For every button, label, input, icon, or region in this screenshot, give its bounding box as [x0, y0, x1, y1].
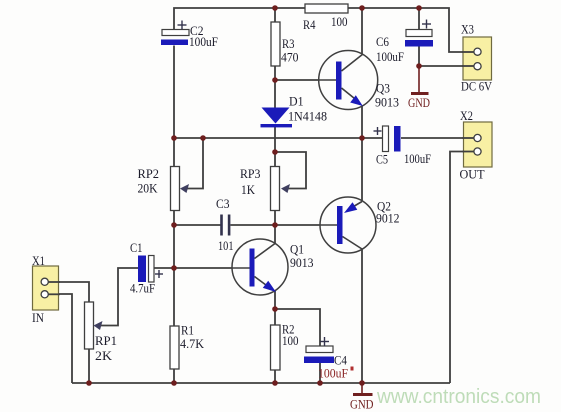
- svg-text:RP2: RP2: [138, 166, 160, 181]
- wire node y80 to D1 anode: [274, 80, 276, 108]
- label C2 value 100uF: [189, 34, 218, 49]
- label IN: [32, 310, 45, 325]
- label D1 value 1N4148: [288, 109, 327, 124]
- label C1: [130, 240, 143, 255]
- transistor Q1 emitter line: [255, 277, 271, 289]
- node R3 bottom / Q3 base / D1: [272, 77, 278, 83]
- node RP2 wiper tap y138: [200, 135, 206, 141]
- label RP1 value 2K: [95, 348, 113, 363]
- label R4 value 100: [331, 14, 348, 29]
- wire top rail to R3 top: [274, 8, 276, 22]
- capacitor C1 plus sign: [155, 270, 163, 278]
- transistor Q2 base bar: [337, 206, 343, 244]
- wire ground rail bottom: [72, 382, 450, 384]
- capacitor C6 positive plate: [406, 30, 432, 37]
- label C6: [376, 34, 389, 49]
- svg-text:IN: IN: [32, 310, 45, 325]
- svg-text:X1: X1: [32, 253, 45, 268]
- capacitor C5 negative plate: [394, 126, 401, 152]
- capacitor C5 positive plate: [383, 126, 389, 152]
- svg-text:OUT: OUT: [460, 167, 485, 182]
- svg-text:100uF: 100uF: [189, 34, 218, 49]
- transistor Q3 collector line: [342, 54, 364, 71]
- wire R2 bottom to ground rail: [274, 370, 276, 383]
- capacitor C5 plus sign: [374, 127, 382, 135]
- svg-text:R4: R4: [303, 17, 316, 32]
- label Q2: [377, 199, 391, 214]
- label OUT: [460, 167, 485, 182]
- transistor Q2 circle: [320, 197, 376, 253]
- ground symbol top bar: [411, 92, 429, 95]
- label Q2 value 9012: [376, 211, 400, 226]
- connector X3 pin 2: [474, 63, 481, 70]
- label RP1: [95, 333, 117, 348]
- capacitor C2 positive plate: [162, 30, 189, 36]
- wire RP3 wiper bracket: [275, 152, 306, 189]
- svg-text:2K: 2K: [95, 348, 113, 363]
- connector X1 body: [33, 266, 59, 310]
- ground symbol bottom stub: [361, 383, 363, 393]
- svg-text:X2: X2: [460, 108, 473, 123]
- wire C1 right plate to x174 node: [154, 267, 174, 269]
- wire Q1 emitter down to R2 top: [274, 291, 276, 325]
- wire C4 bottom to ground rail: [319, 363, 321, 383]
- node C6 / X3 pin2: [416, 63, 422, 69]
- label RP3 value 1K: [241, 182, 256, 197]
- svg-text:9013: 9013: [375, 95, 399, 110]
- label R1: [181, 323, 194, 338]
- svg-text:1N4148: 1N4148: [288, 109, 327, 124]
- label C4: [334, 353, 347, 368]
- node x174 / y138: [171, 135, 177, 141]
- transistor Q3 emitter arrow: [350, 95, 363, 106]
- connector X2 pin 2: [474, 148, 481, 155]
- svg-text:4.7K: 4.7K: [180, 336, 205, 351]
- label RP2 value 20K: [138, 181, 159, 196]
- potentiometer RP2 wiper arrow: [180, 184, 189, 193]
- wire C6 bottom to X3 pin2 node: [418, 47, 420, 67]
- svg-text:DC 6V: DC 6V: [461, 79, 493, 94]
- node top rail / R3: [272, 5, 278, 11]
- label DC 6V: [461, 79, 493, 94]
- label Q1: [290, 242, 304, 257]
- wire RP1 bottom to ground rail: [88, 349, 90, 383]
- label C5: [376, 152, 388, 167]
- node ground rail / R2: [272, 380, 278, 386]
- svg-text:GND: GND: [350, 397, 374, 412]
- wire R3 bottom to node y80: [274, 66, 276, 80]
- capacitor C3 left plate: [220, 215, 223, 236]
- resistor R3 value 470: [271, 22, 280, 66]
- ground symbol top (C6/X3) stub: [418, 66, 420, 92]
- capacitor C2 negative plate: [161, 40, 188, 46]
- label X3: [461, 22, 474, 37]
- wire Q3 collector to top rail: [361, 8, 363, 54]
- connector X2 body: [464, 122, 493, 167]
- node ground rail / C4: [317, 380, 323, 386]
- connector X3 body: [463, 37, 492, 80]
- label GND bottom: [350, 397, 374, 412]
- wire top rail right (R4 right to X3 pin1): [348, 8, 473, 52]
- svg-text:100: 100: [331, 14, 348, 29]
- transistor Q1 base bar: [250, 249, 255, 287]
- node C5 input y138: [359, 135, 365, 141]
- capacitor C4 negative plate: [304, 357, 334, 364]
- label R2: [282, 322, 295, 337]
- svg-text:4.7uF: 4.7uF: [130, 281, 155, 296]
- label C5 value 100uF: [404, 151, 431, 166]
- capacitor C1 positive plate: [149, 256, 155, 283]
- wire X2 pin1 stub inside box: [463, 137, 474, 139]
- resistor R2 value 100: [271, 325, 281, 370]
- potentiometer RP3 body: [271, 167, 280, 211]
- label R4: [303, 17, 316, 32]
- svg-text:RP1: RP1: [95, 333, 117, 348]
- svg-text:100: 100: [282, 333, 299, 348]
- svg-text:C6: C6: [376, 34, 389, 49]
- wire RP3 bottom to C3 node: [274, 210, 276, 225]
- transistor Q2 emitter arrow (PNP, points to base): [344, 202, 357, 213]
- capacitor C4 plus sign: [320, 337, 329, 346]
- label Q3: [376, 81, 390, 96]
- transistor Q2 collector line: [343, 237, 363, 250]
- connector X1 pin 2: [41, 291, 48, 298]
- wire X3 pin1 stub inside box: [462, 51, 474, 53]
- resistor R1 value 4.7K: [170, 326, 179, 369]
- transistor Q3 base bar: [336, 62, 342, 100]
- svg-text:470: 470: [281, 50, 299, 65]
- label RP2: [138, 166, 160, 181]
- wire X1 pin2 stub inside box: [48, 293, 60, 295]
- transistor Q2 base wire inside: [320, 224, 337, 226]
- wire C2 bottom to node y138: [173, 46, 175, 139]
- capacitor C3 right plate: [228, 215, 231, 236]
- label C6 value 100uF: [376, 49, 404, 64]
- wire node y138 to C5 left plate: [362, 137, 382, 139]
- capacitor C6 negative plate: [405, 40, 433, 47]
- svg-text:100uF: 100uF: [404, 151, 431, 166]
- label C3: [216, 196, 230, 211]
- node ground rail / R1: [171, 380, 177, 386]
- ground symbol bottom bar: [353, 393, 373, 396]
- svg-text:9013: 9013: [290, 255, 314, 270]
- svg-text:GND: GND: [408, 95, 430, 110]
- wire RP2 wiper bracket: [183, 138, 203, 189]
- label C2: [190, 23, 204, 38]
- node ground rail / GND: [359, 380, 365, 386]
- svg-text:100uF: 100uF: [376, 49, 404, 64]
- label D1: [289, 94, 304, 109]
- wire Q2 collector down to ground rail: [361, 249, 363, 383]
- potentiometer RP1 body: [85, 302, 94, 349]
- svg-text:C5: C5: [376, 152, 388, 167]
- svg-text:101: 101: [218, 238, 234, 253]
- svg-text:X3: X3: [461, 22, 474, 37]
- node x174 / C3: [171, 222, 177, 228]
- label C4 red asterisk mark: [351, 367, 354, 371]
- svg-text:Q3: Q3: [376, 81, 390, 96]
- svg-text:9012: 9012: [376, 211, 400, 226]
- svg-text:C3: C3: [216, 196, 230, 211]
- wire Q1 emitter branch to C4 top: [275, 309, 320, 346]
- wire Q1 base (x174 node to base bar): [174, 267, 250, 269]
- transistor Q1 emitter arrow: [263, 281, 276, 292]
- diode D1 cathode bar: [261, 124, 293, 127]
- label Q3 value 9013: [375, 95, 399, 110]
- wire RP2 bottom to R1 top (through C3 node and Q1 base node): [173, 210, 175, 326]
- wire C6 top to rail: [418, 8, 420, 30]
- svg-text:C1: C1: [130, 240, 143, 255]
- wire X1 pin1 stub inside box: [48, 281, 60, 283]
- label GND top: [408, 95, 430, 110]
- label R1 value 4.7K: [180, 336, 205, 351]
- potentiometer RP3 wiper arrow: [281, 184, 290, 193]
- wire X1 pin2 down to ground rail: [48, 294, 72, 383]
- node top rail / Q3 collector: [359, 5, 365, 11]
- transistor Q3 circle: [319, 51, 378, 110]
- wire node y138 to RP2 top: [173, 138, 175, 167]
- connector X1 pin 1: [41, 278, 48, 285]
- potentiometer RP2 body: [171, 167, 180, 211]
- node D1 / RP3 top: [272, 149, 278, 155]
- diode D1 1N4148 triangle: [262, 108, 290, 124]
- label X1: [32, 253, 45, 268]
- svg-text:D1: D1: [289, 94, 304, 109]
- wire C3 node left (x174 to C3): [174, 224, 221, 226]
- label R3 value 470: [281, 50, 299, 65]
- wire X1 pin1 to RP1 top: [48, 282, 89, 302]
- transistor Q1 base wire inside: [232, 267, 250, 269]
- wire X2 pin2 down to ground rail: [450, 152, 473, 384]
- label C4 value 100uF: [318, 366, 348, 381]
- wire C3 right to Q2 base: [231, 224, 338, 226]
- capacitor C4 positive plate: [306, 346, 333, 353]
- transistor Q3 base wire inside: [319, 79, 336, 81]
- label Q1 value 9013: [290, 255, 314, 270]
- wire X3 pin2: [419, 65, 473, 67]
- label RP3: [240, 166, 261, 181]
- node C3 / RP3 / Q1 collector: [272, 222, 278, 228]
- watermark www.cntronics.com: [376, 386, 541, 408]
- node C1 / Q1 base: [171, 265, 177, 271]
- capacitor C2 plus sign: [178, 21, 187, 30]
- transistor Q1 circle: [232, 239, 288, 295]
- label R3: [282, 36, 295, 51]
- wire node y138 down to Q2 emitter: [361, 138, 363, 201]
- capacitor C6 plus sign: [422, 20, 431, 29]
- label R2 value 100: [282, 333, 299, 348]
- wire D1 cathode to RP3 top: [274, 127, 276, 167]
- wire horizontal node y138 (C2/RP2 to C5): [174, 137, 362, 139]
- wire Q1 collector to C3 node: [274, 225, 276, 243]
- wire R1 bottom to ground rail: [173, 369, 175, 383]
- wire Q3 base: [275, 79, 336, 81]
- connector X3 pin 1: [474, 48, 481, 55]
- node Q1 emitter / C4 branch: [272, 306, 278, 312]
- svg-text:100uF: 100uF: [318, 366, 348, 381]
- label X2: [460, 108, 473, 123]
- label C3 value 101: [218, 238, 234, 253]
- transistor Q3 emitter line: [342, 88, 358, 101]
- wire Q3 emitter to node y138: [361, 105, 363, 138]
- label C1 value 4.7uF: [130, 281, 155, 296]
- wire RP1 wiper to C1 left plate: [97, 268, 139, 326]
- svg-text:20K: 20K: [138, 181, 159, 196]
- connector X2 pin 1: [474, 134, 481, 141]
- svg-text:www.cntronics.com: www.cntronics.com: [376, 386, 541, 408]
- wire top rail left (C2 top to R4 left): [174, 8, 305, 30]
- transistor Q1 collector line: [255, 244, 276, 259]
- wire X3 pin2 stub inside box: [462, 65, 474, 67]
- node top rail / C6: [416, 5, 422, 11]
- capacitor C1 negative plate: [138, 256, 146, 283]
- wire X2 pin2 stub inside box: [463, 151, 474, 153]
- wire C5 right plate to X2 pin1: [401, 137, 473, 139]
- potentiometer RP1 wiper arrow: [94, 321, 103, 330]
- resistor R4 value 100: [305, 4, 348, 13]
- transistor Q2 emitter line: [351, 202, 362, 209]
- svg-text:1K: 1K: [241, 182, 256, 197]
- svg-text:RP3: RP3: [240, 166, 261, 181]
- node ground rail / RP1: [86, 380, 92, 386]
